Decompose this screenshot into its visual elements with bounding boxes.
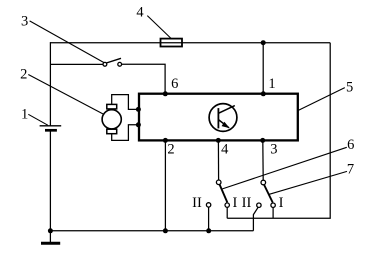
callout line 4 (147, 16, 171, 39)
switch SA contact I (225, 203, 229, 207)
junction: pin2 / bottom rail (163, 228, 168, 233)
wire: SB contact II link to bottom rail (253, 207, 258, 231)
switch SA lever (220, 185, 228, 203)
wire: right rail (227, 43, 330, 219)
switch SB (component 7) pivot (261, 180, 266, 185)
svg-text:2: 2 (20, 66, 27, 82)
junction: pin 6 (163, 91, 168, 96)
wire: pin 4 drop (217, 140, 219, 180)
battery GB (component 1) long plate (40, 125, 62, 127)
motor bottom brush (107, 129, 117, 134)
switch SA (component 6) pivot (216, 180, 221, 185)
transistor VT circle (209, 104, 237, 132)
wire: ground stub (49, 231, 51, 243)
fuse F (component 4) (161, 39, 183, 47)
wire: motor top lead (112, 95, 139, 110)
junction: bottom-left node (48, 228, 53, 233)
switch S1 right contact (118, 62, 122, 66)
wire: left rail lower (49, 130, 51, 231)
wire: top rail (50, 42, 330, 44)
svg-text:6: 6 (171, 76, 178, 92)
wire: pin 3 drop (262, 140, 264, 180)
wire: pin 1 riser (262, 43, 264, 94)
wire: SB contact I drop (272, 207, 274, 218)
switch SB contact I (271, 203, 275, 207)
svg-text:4: 4 (221, 141, 229, 157)
svg-text:4: 4 (136, 5, 144, 21)
junction: box left pin upper (136, 107, 141, 112)
svg-text:2: 2 (167, 141, 174, 157)
wire: left rail upper (49, 42, 51, 126)
switch SB contact II (257, 203, 261, 207)
callout line 5 (298, 88, 345, 111)
svg-text:6: 6 (347, 137, 354, 153)
wire: SA contact I drop (226, 207, 228, 218)
transistor collector (218, 106, 234, 114)
svg-text:1: 1 (21, 107, 28, 123)
switch S1 lever (106, 58, 121, 63)
transistor emitter with arrow (218, 120, 229, 128)
transistor base bar (217, 108, 219, 128)
junction: pin 2 (163, 138, 168, 143)
junction: pin 3 (260, 138, 265, 143)
wire: pin 2 drop (164, 140, 166, 230)
electronic unit box (component 5) (139, 94, 298, 141)
motor M (component 2) body (102, 110, 121, 129)
motor top brush (107, 104, 117, 109)
callout line 6 (222, 147, 346, 189)
svg-text:5: 5 (346, 79, 353, 95)
svg-text:3: 3 (270, 141, 277, 157)
svg-text:II: II (192, 195, 202, 211)
switch S1 (component 3) left contact (103, 62, 107, 66)
junction: pin 4 (216, 138, 221, 143)
junction: SA-II / bottom rail (206, 228, 211, 233)
junction: pin 1 (261, 91, 266, 96)
switch SA contact II (206, 203, 210, 207)
svg-text:7: 7 (347, 162, 354, 178)
callout line 2 (28, 75, 104, 115)
wire: SA contact II drop (208, 207, 210, 231)
battery GB (component 1) short plate (45, 129, 57, 132)
callout line 7 (269, 171, 347, 194)
callout line 3 (30, 21, 104, 63)
wire: bottom rail (50, 230, 253, 232)
wire: switch S1 to pin 6 (122, 64, 165, 94)
svg-text:1: 1 (268, 76, 275, 92)
svg-text:II: II (242, 195, 252, 211)
wire: motor bottom lead (112, 125, 139, 141)
svg-text:I: I (232, 195, 237, 211)
callout line 1 (28, 114, 48, 125)
switch SB lever (264, 185, 273, 203)
junction: top rail / pin1 riser (261, 40, 266, 45)
wire: switch feed (50, 63, 103, 65)
ground bar (41, 242, 60, 245)
junction: box left pin lower (136, 122, 141, 127)
svg-text:3: 3 (21, 14, 28, 30)
svg-text:I: I (279, 195, 284, 211)
